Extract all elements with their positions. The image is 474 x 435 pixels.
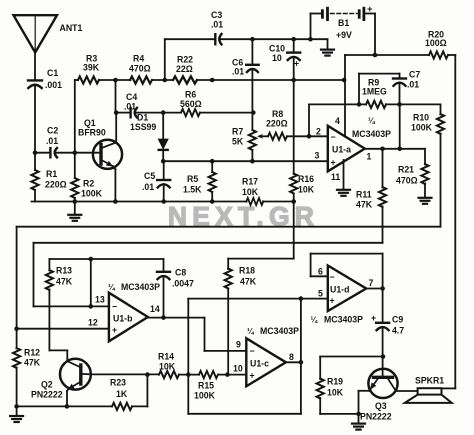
svg-text:+: +	[331, 158, 336, 168]
resistor R16	[290, 174, 297, 194]
svg-text:Q3: Q3	[375, 401, 387, 411]
svg-text:C4: C4	[126, 92, 137, 102]
svg-text:47K: 47K	[356, 200, 373, 210]
node battery plus junction	[373, 53, 378, 58]
svg-text:6: 6	[318, 267, 323, 277]
svg-text:470Ω: 470Ω	[129, 64, 151, 74]
svg-text:+: +	[330, 296, 335, 306]
node pin8 output junction	[299, 360, 304, 365]
wire rail to Q1 collector / C4	[115, 80, 117, 113]
svg-text:R10: R10	[413, 113, 429, 123]
svg-text:.01: .01	[407, 80, 419, 90]
resistor R1	[34, 153, 36, 170]
svg-text:+9V: +9V	[336, 30, 352, 40]
wire C1 to base node	[34, 85, 36, 153]
svg-text:C9: C9	[392, 315, 403, 325]
svg-text:1MEG: 1MEG	[362, 87, 387, 97]
op-amp U1-a	[328, 126, 365, 172]
node pin5 feedback junction	[299, 296, 304, 301]
transistor Q1 BFR90	[93, 140, 122, 169]
transistor Q2 PN2222	[60, 359, 91, 390]
wire y=242.8	[34, 242, 383, 244]
node R14/R15 junction	[186, 372, 191, 377]
resistor R22	[173, 76, 197, 83]
wire right rail down to speaker	[454, 55, 456, 388]
node R12 bottom ground junction	[14, 404, 19, 409]
wire Q2 base / R14 / R15 to U1-c pin10	[83, 373, 160, 375]
svg-text:.0047: .0047	[172, 279, 194, 289]
wire left vertical x=16.6 with R12	[16, 227, 18, 349]
op-amp U1-c	[246, 338, 286, 386]
wire antenna lead	[34, 53, 36, 80]
svg-text:39K: 39K	[83, 63, 100, 73]
svg-text:−: −	[250, 346, 255, 356]
node R15/R18/pin10 junction	[225, 372, 230, 377]
wire pin12	[17, 328, 109, 330]
resistor R9 loop	[358, 74, 360, 105]
svg-text:11: 11	[331, 172, 340, 182]
svg-text:12: 12	[88, 318, 98, 328]
capacitor C9	[382, 289, 384, 322]
svg-text:10: 10	[233, 364, 243, 374]
svg-text:47K: 47K	[56, 277, 73, 287]
resistor R5	[211, 161, 213, 172]
svg-text:470Ω: 470Ω	[396, 176, 418, 186]
wire R9 node down to pin1	[399, 104, 401, 148]
svg-text:1.5K: 1.5K	[183, 185, 202, 195]
resistor R4	[130, 76, 152, 83]
capacitor C5	[163, 161, 165, 179]
svg-text:U1-d: U1-d	[330, 285, 349, 295]
node Q1 base/R2/R3 junction	[73, 150, 78, 155]
svg-text:.01: .01	[46, 136, 58, 146]
svg-text:R8: R8	[272, 109, 283, 119]
svg-text:3: 3	[315, 151, 320, 161]
node antenna/C2/R1 junction	[33, 150, 38, 155]
svg-text:MC3403P: MC3403P	[121, 282, 160, 292]
svg-text:5: 5	[318, 289, 323, 299]
svg-text:.01: .01	[142, 182, 154, 192]
svg-text:+: +	[294, 59, 299, 69]
svg-text:C5: C5	[144, 171, 155, 181]
svg-text:14: 14	[150, 304, 160, 314]
node C5 rail junction	[161, 199, 166, 204]
svg-text:PN2222: PN2222	[31, 390, 63, 400]
svg-text:560Ω: 560Ω	[180, 99, 202, 109]
resistor R19	[319, 357, 321, 380]
svg-text:R19: R19	[327, 377, 343, 387]
resistor R2	[74, 153, 76, 178]
wire pin2 feedback	[308, 104, 310, 136]
svg-text:10K: 10K	[159, 362, 176, 372]
svg-text:+: +	[371, 313, 376, 323]
wire top y=39.2	[165, 38, 214, 40]
svg-text:5K: 5K	[232, 137, 244, 147]
node C9/R19 junction	[381, 354, 386, 359]
svg-text:47K: 47K	[24, 358, 41, 368]
resistor R10	[440, 104, 442, 114]
svg-text:.001: .001	[45, 80, 62, 90]
wire rail to top gnd wire	[164, 39, 166, 80]
svg-text:9: 9	[236, 340, 241, 350]
node R5 top junction	[210, 159, 215, 164]
node pin14/C8 junction	[161, 315, 166, 320]
node Q1 collector/C4 junction	[114, 110, 119, 115]
wire pin1 output	[365, 148, 425, 150]
svg-text:100K: 100K	[411, 123, 433, 133]
svg-text:R5: R5	[187, 174, 198, 184]
node Q2 emitter junction	[65, 404, 70, 409]
wire rail right of R17	[263, 201, 294, 203]
svg-text:R4: R4	[133, 54, 144, 64]
svg-text:R6: R6	[185, 90, 196, 100]
wire base node y=152.7	[35, 152, 49, 154]
node R3/R4 junction	[113, 78, 118, 83]
node R6/R7 junction	[251, 110, 256, 115]
svg-text:47K: 47K	[240, 277, 257, 287]
svg-text:R2: R2	[83, 179, 94, 189]
wire +9V down to U1-a pin4	[344, 55, 346, 136]
resistor R6	[181, 109, 200, 116]
svg-text:D1: D1	[137, 113, 148, 123]
svg-text:R14: R14	[158, 352, 174, 362]
svg-text:+: +	[112, 325, 117, 335]
node pin7 output junction	[380, 286, 385, 291]
antenna ANT1	[14, 15, 58, 52]
node pin1/C7 junction	[397, 147, 402, 152]
capacitor C8	[163, 259, 165, 271]
resistor R11	[382, 149, 384, 188]
bottom rail with R23	[17, 405, 112, 407]
R7 wiper arrow from R8	[260, 135, 268, 137]
svg-text:100K: 100K	[194, 391, 216, 401]
node C6 top junction	[250, 37, 255, 42]
svg-text:MC3403P: MC3403P	[260, 326, 299, 336]
svg-text:C7: C7	[409, 70, 420, 80]
svg-text:+: +	[250, 371, 255, 381]
svg-text:−: −	[112, 302, 117, 312]
wire C2 to Q1 base	[56, 152, 100, 154]
svg-text:R1: R1	[46, 169, 57, 179]
svg-text:.01: .01	[232, 67, 244, 77]
svg-text:−: −	[331, 132, 336, 142]
node battery minus junction	[308, 37, 313, 42]
resistor R20	[429, 51, 448, 58]
svg-text:220Ω: 220Ω	[266, 119, 288, 129]
node R22 right junction	[210, 78, 215, 83]
svg-text:2: 2	[316, 127, 321, 137]
svg-text:ANT1: ANT1	[60, 23, 83, 33]
svg-text:100K: 100K	[81, 189, 103, 199]
ground bottom-left	[16, 406, 18, 415]
svg-text:+: +	[367, 4, 373, 15]
node Q1 emitter rail junction	[113, 199, 118, 204]
node D1 anode junction	[161, 110, 166, 115]
node R19/Q3 emitter ground junction	[356, 412, 361, 417]
svg-text:10: 10	[272, 53, 282, 63]
node R5 rail junction	[210, 199, 215, 204]
svg-text:1SS99: 1SS99	[130, 122, 156, 132]
node R4/R22 junction	[163, 78, 168, 83]
svg-text:−: −	[330, 272, 335, 282]
resistor R21	[424, 149, 426, 165]
svg-text:R7: R7	[232, 127, 243, 137]
node pin1/R11 junction	[380, 147, 385, 152]
capacitor C1	[28, 79, 42, 81]
svg-text:100Ω: 100Ω	[425, 38, 447, 48]
wire +9V y=55	[345, 54, 429, 56]
svg-text:R11: R11	[356, 190, 372, 200]
wire R19 top	[320, 356, 383, 358]
capacitor C10	[293, 39, 295, 51]
svg-text:C3: C3	[211, 10, 222, 20]
node +9V rail pin4 junction	[342, 78, 347, 83]
wire y=112.6	[116, 112, 130, 114]
svg-text:R18: R18	[239, 266, 255, 276]
svg-text:R22: R22	[177, 55, 193, 65]
svg-text:8: 8	[289, 352, 294, 362]
wire pin14 to U1-c pin9	[148, 317, 205, 319]
resistor R18	[227, 259, 229, 269]
node pin12/R12 junction	[14, 326, 19, 331]
svg-text:C1: C1	[47, 68, 58, 78]
transistor Q3 PN2222	[382, 357, 384, 376]
op-amp U1-b	[109, 293, 148, 342]
svg-text:1: 1	[367, 152, 372, 162]
capacitor C6	[251, 39, 253, 63]
wire long y=226.7	[17, 226, 441, 228]
resistor R3	[78, 76, 99, 83]
svg-text:PN2222: PN2222	[360, 412, 392, 422]
wire Q3 collector to speaker	[396, 390, 418, 392]
node R7 bottom junction	[250, 159, 255, 164]
svg-text:R21: R21	[398, 165, 414, 175]
svg-text:Q2: Q2	[41, 380, 53, 390]
ground at Q3 emitter	[358, 414, 360, 423]
ground below R2	[74, 202, 76, 215]
node D1 cathode junction	[161, 159, 166, 164]
node C10 +9V rail junction	[291, 78, 296, 83]
svg-text:10K: 10K	[242, 187, 259, 197]
svg-text:U1-a: U1-a	[332, 145, 351, 155]
node R9/C7 right junction	[397, 102, 402, 107]
svg-text:1K: 1K	[116, 389, 128, 399]
wire x=90.8	[90, 259, 92, 306]
wire to R10	[400, 103, 441, 105]
svg-text:U1-c: U1-c	[250, 359, 269, 369]
node R13 top wire junction	[89, 257, 94, 262]
resistor R13	[48, 259, 50, 271]
node C10 top junction	[291, 37, 296, 42]
svg-text:MC3403P: MC3403P	[324, 315, 363, 325]
svg-text:R16: R16	[298, 174, 314, 184]
node R16 rail junction	[291, 199, 296, 204]
U1-a pin11 ground	[343, 160, 345, 189]
wire +9V rail y=80	[75, 79, 78, 81]
svg-text:R23: R23	[110, 378, 126, 388]
node R23/R14 junction	[145, 372, 150, 377]
svg-text:R12: R12	[24, 348, 40, 358]
svg-text:10K: 10K	[327, 388, 344, 398]
svg-text:C10: C10	[269, 44, 285, 54]
svg-text:.01: .01	[211, 20, 223, 30]
svg-text:R13: R13	[56, 266, 72, 276]
svg-text:U1-b: U1-b	[113, 314, 132, 324]
svg-text:13: 13	[95, 295, 105, 305]
svg-text:22Ω: 22Ω	[176, 64, 193, 74]
svg-text:.01: .01	[124, 102, 136, 112]
resistor R7 (pot)	[249, 130, 256, 150]
svg-text:7: 7	[369, 278, 374, 288]
ground below battery	[327, 39, 329, 49]
wire R3 to base	[74, 80, 76, 153]
svg-text:220Ω: 220Ω	[45, 180, 67, 190]
svg-text:Q1: Q1	[84, 118, 96, 128]
capacitor C2	[49, 148, 51, 157]
svg-text:C2: C2	[47, 126, 58, 136]
U1-d feedback box pin6	[366, 288, 382, 290]
resistor R17 (in rail)	[246, 198, 263, 205]
wire to U1-b pin13	[33, 243, 35, 307]
capacitor C3	[214, 34, 216, 44]
svg-text:B1: B1	[338, 18, 349, 28]
svg-text:MC3403P: MC3403P	[352, 129, 391, 139]
node R8/pin2 junction	[307, 134, 312, 139]
wire ground rail	[32, 201, 247, 203]
capacitor C4	[129, 108, 131, 117]
node R2 ground junction	[73, 199, 78, 204]
svg-text:C8: C8	[175, 268, 186, 278]
svg-text:R17: R17	[242, 177, 258, 187]
node R9 left junction	[357, 102, 362, 107]
battery B1	[310, 14, 312, 40]
wire pin5/feedback	[188, 298, 327, 300]
svg-text:R15: R15	[198, 381, 214, 391]
node pin13 junction	[89, 304, 94, 309]
wire pin8 output	[286, 361, 301, 363]
capacitor C7	[399, 74, 401, 78]
svg-text:SPKR1: SPKR1	[415, 376, 444, 386]
svg-text:4: 4	[335, 116, 340, 126]
wire y=259	[49, 258, 163, 260]
speaker SPKR1	[418, 388, 442, 394]
op-amp U1-d	[328, 266, 366, 312]
resistor R8	[268, 133, 287, 140]
wire long vertical x=293.7 (to R16, R18)	[293, 80, 295, 174]
wire y=161.2 to U1-a pin3	[163, 160, 328, 162]
svg-text:4.7: 4.7	[392, 326, 404, 336]
svg-text:BFR90: BFR90	[78, 128, 106, 138]
diode D1	[162, 113, 164, 139]
svg-text:10K: 10K	[298, 185, 315, 195]
